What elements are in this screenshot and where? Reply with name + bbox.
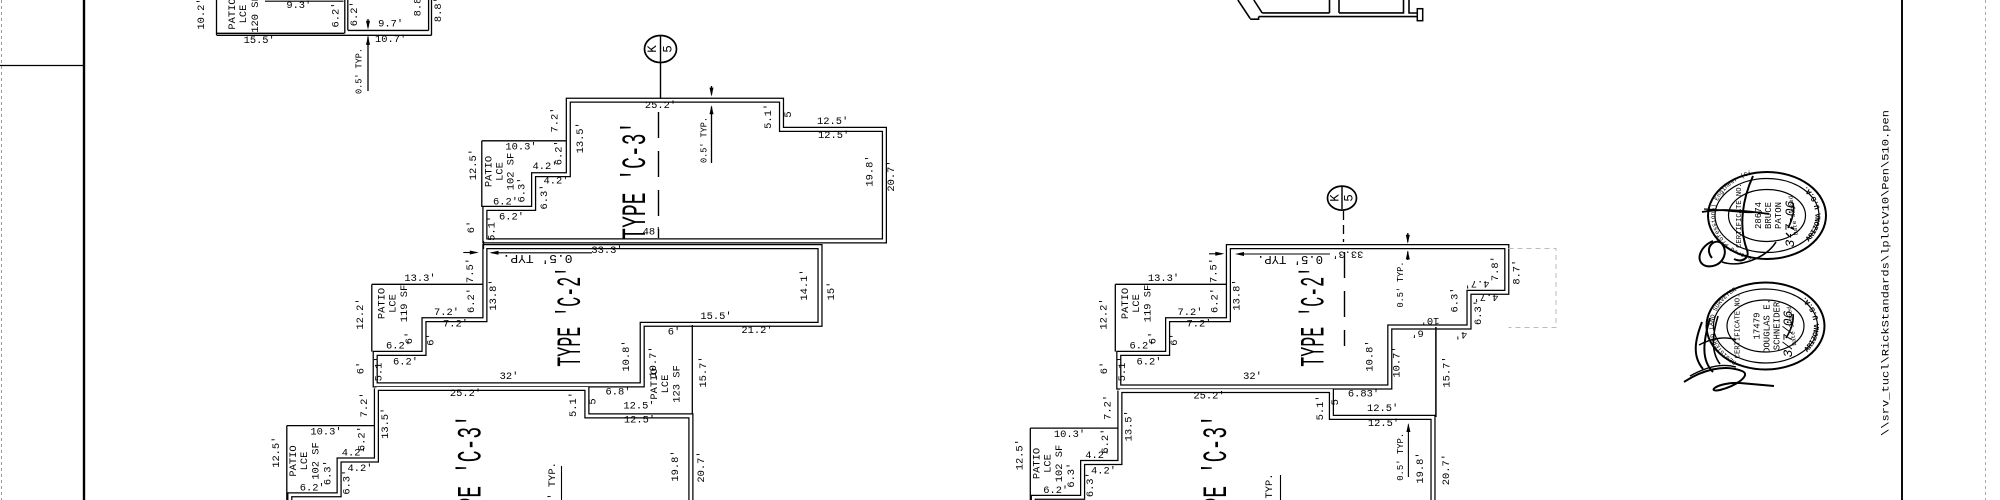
svg-text:K: K: [646, 45, 660, 53]
svg-text:7.2': 7.2': [359, 392, 371, 417]
svg-text:6': 6': [425, 333, 437, 345]
svg-text:12.2': 12.2': [355, 298, 367, 329]
svg-text:6.2': 6.2': [393, 357, 418, 369]
svg-text:15.5': 15.5': [244, 35, 275, 47]
svg-text:10.3': 10.3': [505, 142, 536, 154]
svg-text:19.8': 19.8': [670, 450, 682, 481]
svg-text:6': 6': [356, 362, 368, 374]
svg-text:K: K: [1329, 194, 1343, 202]
svg-text:5.1': 5.1': [1117, 356, 1129, 381]
svg-text:10.3': 10.3': [310, 426, 341, 438]
svg-text:10.3': 10.3': [1054, 429, 1085, 441]
svg-text:LCE: LCE: [388, 294, 400, 313]
svg-text:3/7/06: 3/7/06: [1781, 310, 1796, 357]
svg-text:12.5': 12.5': [624, 415, 655, 427]
svg-text:12.5': 12.5': [271, 437, 283, 468]
svg-text:25.2': 25.2': [450, 388, 481, 400]
svg-text:LCE: LCE: [238, 5, 250, 24]
svg-text:25.2': 25.2': [645, 100, 676, 112]
svg-text:13.5': 13.5': [1124, 410, 1136, 441]
svg-text:5.1': 5.1': [486, 216, 498, 241]
svg-text:TYPE 'C-3': TYPE 'C-3': [454, 415, 492, 500]
svg-text:21.2': 21.2': [741, 325, 772, 337]
svg-text:LCE: LCE: [660, 375, 672, 394]
svg-text:10.2': 10.2': [196, 0, 208, 30]
svg-text:BRUCE: BRUCE: [1764, 202, 1774, 229]
svg-text:5.1': 5.1': [568, 392, 580, 417]
svg-text:123 SF: 123 SF: [672, 365, 684, 402]
svg-text:6.2': 6.2': [1209, 288, 1221, 313]
svg-text:5: 5: [588, 398, 600, 404]
svg-text:0.5' TYP.: 0.5' TYP.: [354, 48, 365, 94]
svg-text:LCE: LCE: [299, 452, 311, 471]
svg-text:0.5' TYP.: 0.5' TYP.: [1395, 433, 1406, 481]
svg-text:LCE: LCE: [1043, 454, 1055, 473]
svg-text:10.8': 10.8': [621, 340, 633, 371]
svg-text:4.2': 4.2': [1085, 450, 1110, 462]
svg-text:6.2': 6.2': [300, 482, 325, 494]
svg-text:20.7': 20.7': [696, 451, 708, 482]
svg-text:4': 4': [1455, 328, 1467, 340]
svg-text:6': 6': [1169, 333, 1181, 345]
svg-text:\\srv_tucl\RickStandards\lplot: \\srv_tucl\RickStandards\lplotV10\Pen\51…: [1881, 110, 1893, 436]
svg-text:CERTIFICATE NO.: CERTIFICATE NO.: [1735, 294, 1743, 359]
svg-text:6.2': 6.2': [499, 212, 524, 224]
svg-text:119 SF: 119 SF: [1143, 285, 1155, 322]
svg-text:102 SF: 102 SF: [1054, 445, 1066, 482]
svg-text:3-7-06: 3-7-06: [1783, 200, 1798, 247]
svg-text:6.83': 6.83': [1348, 389, 1379, 401]
svg-text:DOUGLAS E.: DOUGLAS E.: [1763, 299, 1773, 353]
svg-text:0.5' TYP.: 0.5' TYP.: [1395, 262, 1406, 308]
svg-text:12.5': 12.5': [1367, 403, 1398, 415]
svg-text:120 SF: 120 SF: [250, 0, 262, 33]
svg-text:9.3': 9.3': [286, 0, 311, 12]
svg-text:10': 10': [1421, 314, 1440, 326]
svg-text:10.8': 10.8': [1365, 340, 1377, 371]
svg-text:7.2': 7.2': [443, 319, 468, 331]
svg-text:17479: 17479: [1753, 312, 1763, 339]
svg-text:7.8': 7.8': [1490, 256, 1502, 281]
svg-text:7.2': 7.2': [1187, 319, 1212, 331]
svg-text:5: 5: [783, 111, 795, 117]
svg-text:TYPE 'C-3': TYPE 'C-3': [618, 122, 656, 240]
svg-text:6.2': 6.2': [1137, 357, 1162, 369]
svg-text:28674: 28674: [1754, 202, 1764, 229]
svg-text:5.1': 5.1': [763, 104, 775, 129]
svg-text:12.5': 12.5': [817, 116, 848, 128]
svg-text:TYPE 'C-3': TYPE 'C-3': [1199, 415, 1237, 500]
svg-text:7.2': 7.2': [1178, 307, 1203, 319]
svg-text:19.8': 19.8': [1415, 452, 1427, 483]
svg-text:12.5': 12.5': [818, 130, 849, 142]
svg-text:10.7': 10.7': [375, 34, 406, 46]
svg-text:119 SF: 119 SF: [399, 285, 411, 322]
svg-text:5: 5: [662, 45, 676, 53]
svg-text:7' TYP.: 7' TYP.: [547, 462, 559, 500]
svg-text:15.5': 15.5': [700, 311, 731, 323]
svg-text:TYPE 'C-2': TYPE 'C-2': [553, 267, 591, 367]
svg-text:TYPE 'C-2': TYPE 'C-2': [1297, 267, 1335, 367]
svg-text:6': 6': [1411, 327, 1423, 339]
svg-text:13.5': 13.5': [575, 122, 587, 153]
svg-text:15.7': 15.7': [698, 356, 710, 387]
svg-text:13.8': 13.8': [488, 279, 500, 310]
svg-text:7.2': 7.2': [434, 307, 459, 319]
svg-text:19.8': 19.8': [865, 155, 877, 186]
svg-text:5.1': 5.1': [1315, 395, 1327, 420]
svg-text:7.2': 7.2': [1103, 395, 1115, 420]
svg-text:5: 5: [1343, 194, 1357, 202]
svg-text:6.3': 6.3': [341, 470, 353, 495]
svg-text:6.3': 6.3': [1085, 472, 1097, 497]
svg-text:12.2': 12.2': [1099, 298, 1111, 329]
svg-text:7.5': 7.5': [1209, 258, 1221, 283]
svg-text:0.5' TYP.: 0.5' TYP.: [1257, 252, 1323, 265]
svg-text:8.8': 8.8': [433, 0, 445, 22]
svg-text:25.2': 25.2': [1193, 391, 1224, 403]
svg-text:6': 6': [1099, 362, 1111, 374]
svg-text:13.5': 13.5': [380, 408, 392, 439]
svg-text:6': 6': [404, 332, 416, 344]
svg-text:8.8: 8.8: [413, 0, 425, 16]
svg-text:12.5': 12.5': [1015, 439, 1027, 470]
svg-text:5: 5: [1330, 399, 1342, 405]
svg-text:5.1': 5.1': [373, 356, 385, 381]
svg-text:7.5': 7.5': [465, 258, 477, 283]
svg-text:13.3': 13.3': [1148, 273, 1179, 285]
svg-text:4.2': 4.2': [533, 161, 558, 173]
svg-text:0.5' TYP.: 0.5' TYP.: [699, 117, 710, 163]
svg-text:13.3': 13.3': [404, 273, 435, 285]
svg-text:32': 32': [1243, 371, 1262, 383]
svg-text:8.7': 8.7': [1512, 260, 1524, 285]
svg-text:12.5': 12.5': [623, 401, 654, 413]
svg-text:LCE: LCE: [1131, 294, 1143, 313]
svg-text:6.2': 6.2': [349, 1, 361, 26]
svg-text:10.7': 10.7': [1392, 346, 1404, 377]
svg-text:0.5' TYP.: 0.5' TYP.: [503, 251, 573, 264]
svg-text:6': 6': [1148, 332, 1160, 344]
svg-text:9.7': 9.7': [378, 19, 403, 31]
svg-text:6.2': 6.2': [466, 288, 478, 313]
svg-text:6.3': 6.3': [516, 178, 528, 203]
svg-text:6.2': 6.2': [1043, 485, 1068, 497]
svg-text:14.1': 14.1': [799, 269, 811, 300]
svg-text:102 SF: 102 SF: [311, 442, 323, 479]
svg-text:6.8': 6.8': [606, 387, 631, 399]
svg-text:6.2': 6.2': [493, 197, 518, 209]
svg-text:6.2': 6.2': [331, 3, 343, 28]
svg-text:13.8': 13.8': [1232, 279, 1244, 310]
svg-text:33.3': 33.3': [1332, 248, 1363, 260]
svg-text:6': 6': [466, 221, 478, 233]
svg-text:TYP.: TYP.: [1264, 474, 1276, 499]
svg-text:4.7': 4.7': [1465, 277, 1490, 289]
svg-text:6.3': 6.3': [1473, 300, 1485, 325]
svg-text:6': 6': [668, 327, 680, 339]
svg-text:15': 15': [826, 282, 838, 301]
svg-text:7.2': 7.2': [550, 108, 562, 133]
svg-text:20.7': 20.7': [886, 160, 898, 191]
svg-text:6.3': 6.3': [1450, 288, 1462, 313]
svg-text:12.5': 12.5': [1368, 418, 1399, 430]
svg-text:15.7': 15.7': [1442, 356, 1454, 387]
svg-text:6.3': 6.3': [539, 185, 551, 210]
svg-text:4.2': 4.2': [342, 447, 367, 459]
svg-text:20.7': 20.7': [1441, 454, 1453, 485]
svg-text:33.3': 33.3': [591, 245, 622, 257]
svg-text:12.5': 12.5': [468, 149, 480, 180]
svg-text:32': 32': [500, 371, 519, 383]
